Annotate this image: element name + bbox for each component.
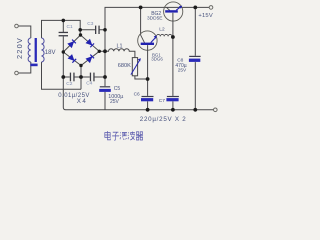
svg-text:C7: C7 <box>159 98 165 104</box>
svg-text:3DG6: 3DG6 <box>151 56 163 61</box>
svg-text:18V: 18V <box>45 50 56 56</box>
svg-text:L2: L2 <box>159 27 165 33</box>
svg-text:C6: C6 <box>134 91 140 97</box>
svg-text:680K: 680K <box>118 63 131 69</box>
svg-text:25V: 25V <box>110 99 120 105</box>
svg-text:C5: C5 <box>114 86 121 92</box>
svg-text:3DD5E: 3DD5E <box>147 16 162 22</box>
svg-text:+15V: +15V <box>198 13 213 19</box>
svg-text:L1: L1 <box>117 43 123 49</box>
svg-text:25V: 25V <box>178 68 187 74</box>
svg-text:C1: C1 <box>67 24 73 30</box>
svg-text:220V: 220V <box>15 37 24 59</box>
svg-text:X4: X4 <box>77 98 87 105</box>
svg-text:C4: C4 <box>86 80 92 86</box>
svg-text:C2: C2 <box>66 81 72 87</box>
svg-text:220µ/25V X 2: 220µ/25V X 2 <box>140 116 187 123</box>
svg-text:C3: C3 <box>87 21 93 27</box>
